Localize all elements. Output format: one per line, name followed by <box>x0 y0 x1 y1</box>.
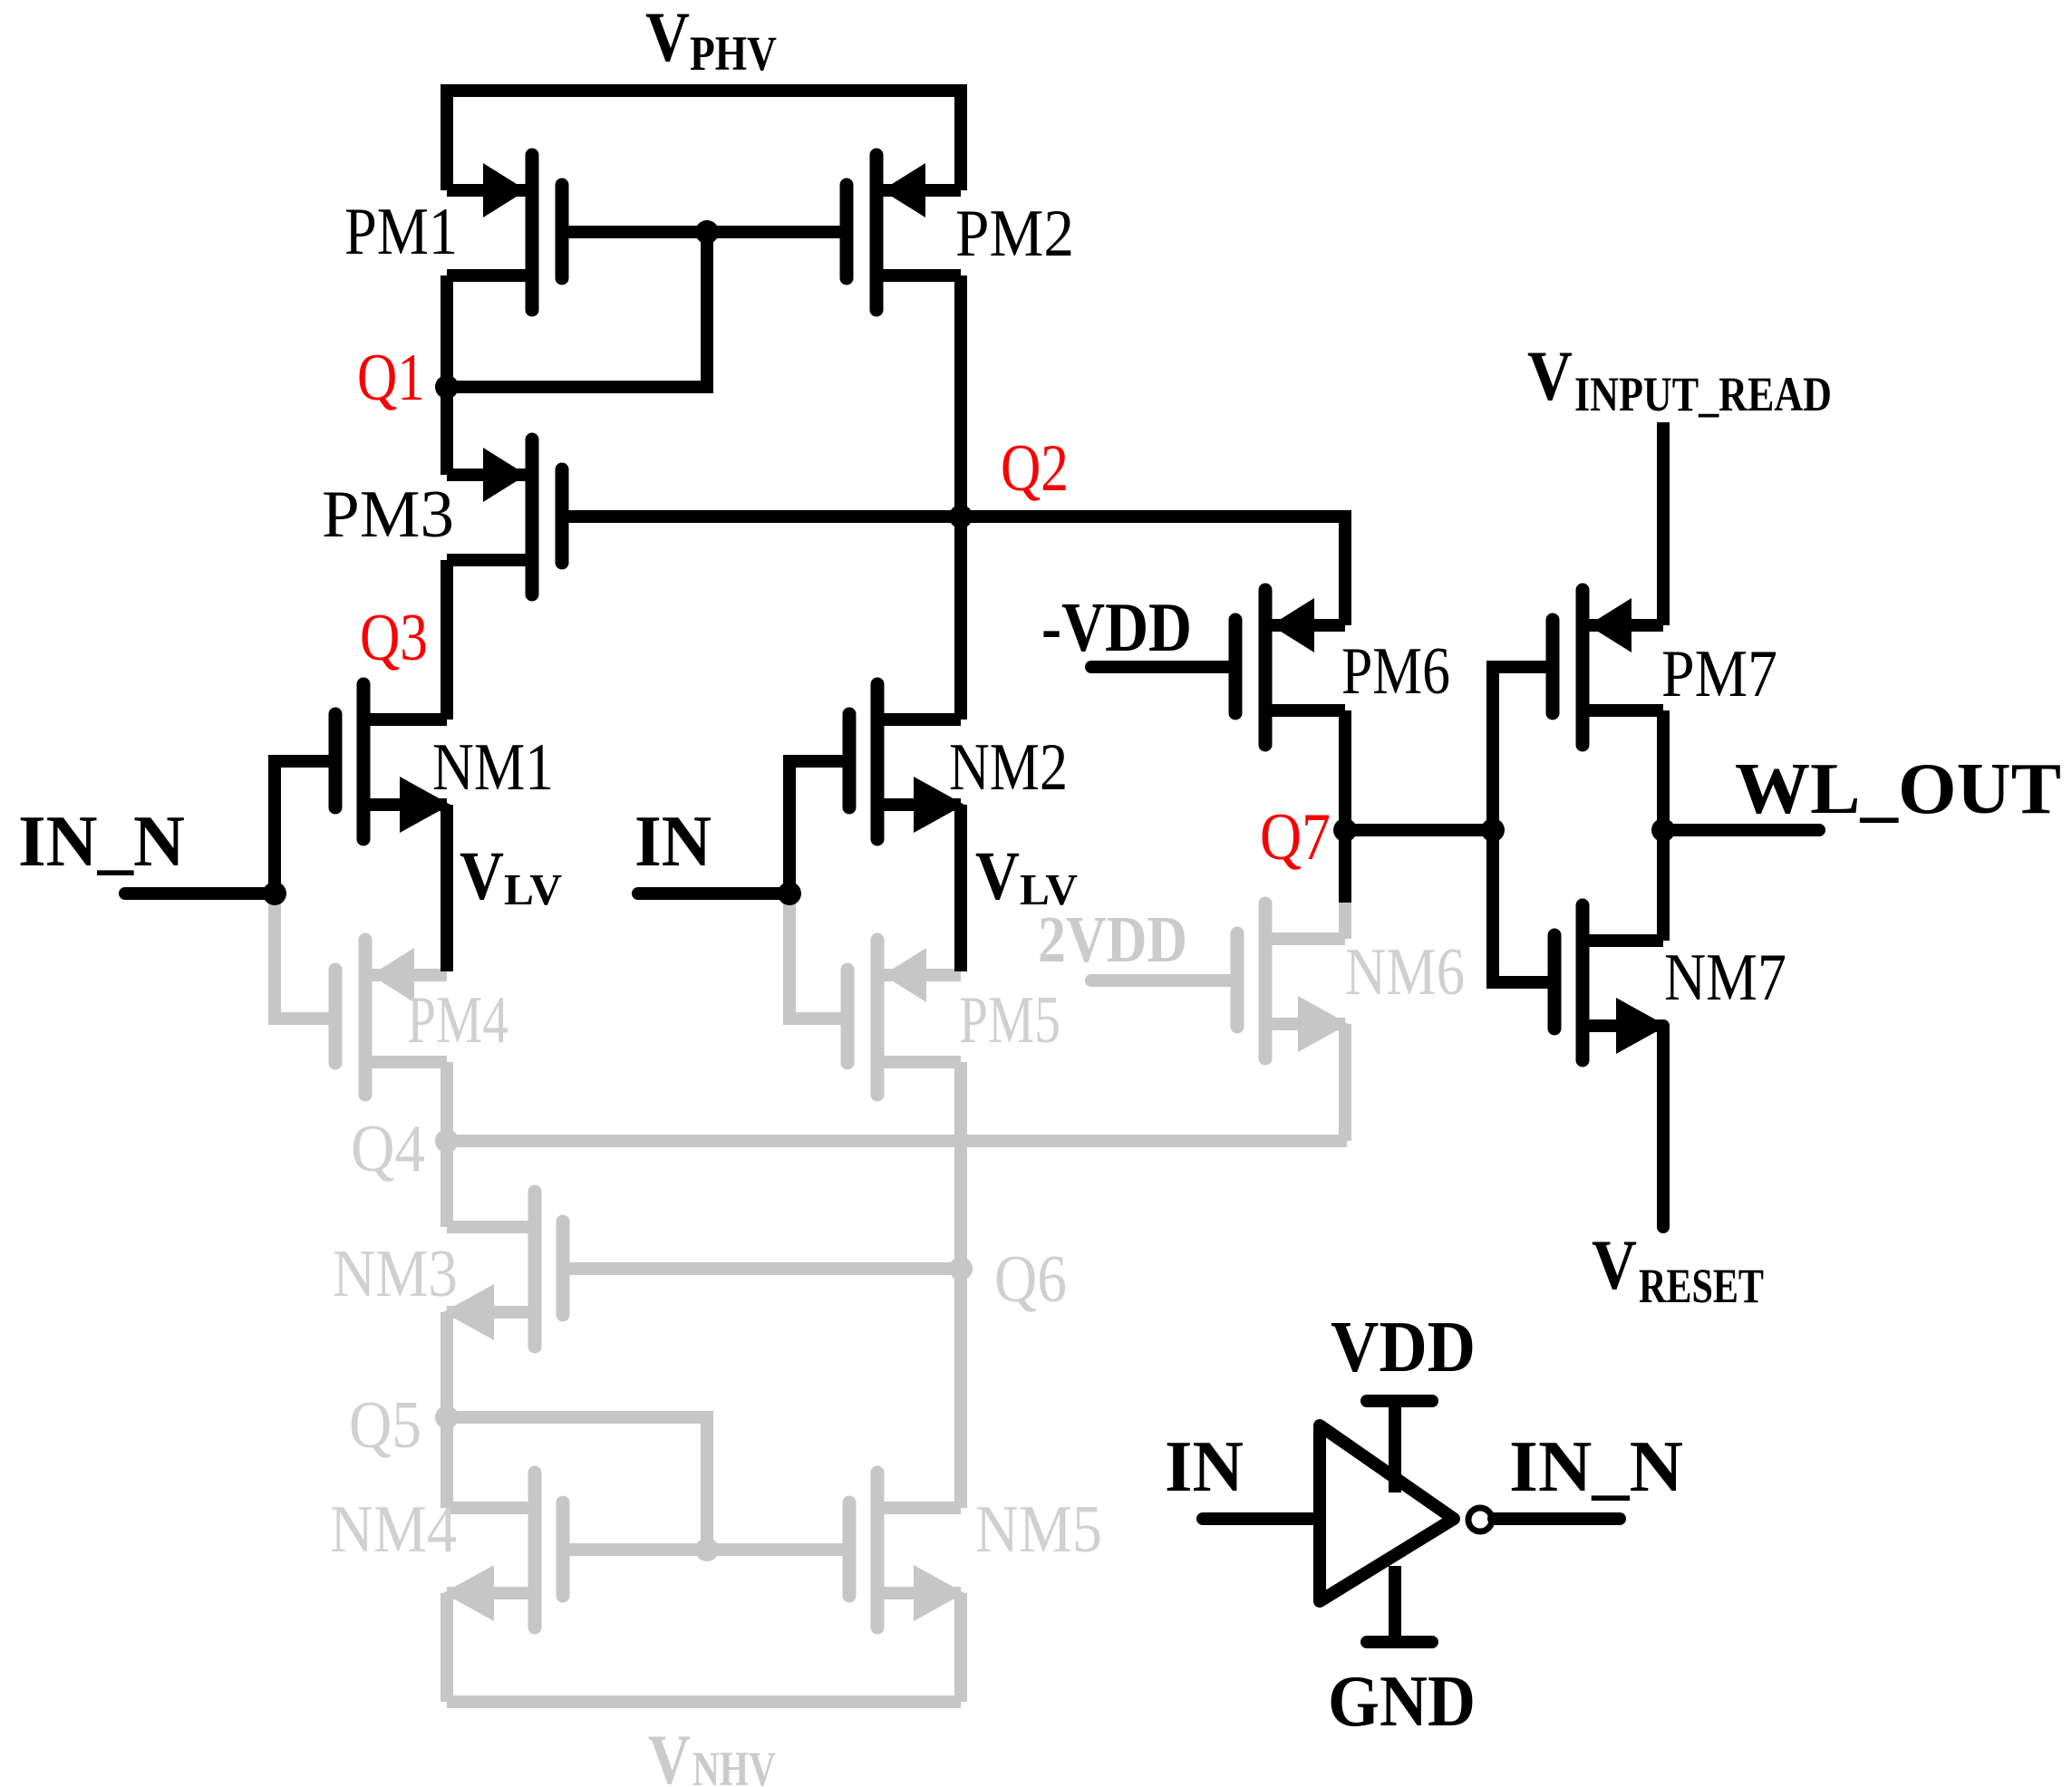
svg-text:WL_OUT: WL_OUT <box>1735 749 2061 829</box>
svg-text:V: V <box>460 838 504 914</box>
wire Q5 to NM4 drain <box>441 1417 453 1508</box>
wire PM5 drain to NM5 drain (through Q4, Q6) <box>954 1062 967 1508</box>
transistor NM6 <box>1237 903 1349 1058</box>
svg-text:Q7: Q7 <box>1260 800 1331 874</box>
svg-text:PM4: PM4 <box>407 983 508 1058</box>
transistor PM7 <box>1553 590 1663 745</box>
wire PM6 drain to Q7 <box>1339 710 1351 830</box>
wire gate junction down to Q1 <box>447 232 707 387</box>
wire WL_OUT to NM7 drain <box>1657 830 1670 941</box>
wire Q5 to NM4/NM5 gates <box>447 1417 707 1550</box>
wire NM5 source to VNHV rail <box>954 1593 967 1702</box>
transistor NM4 <box>443 1473 563 1628</box>
transistor PM6 <box>1235 590 1345 745</box>
node Q6 junction dot <box>949 1257 973 1280</box>
wire node Q6 line (NM3 gate) <box>563 1262 961 1275</box>
svg-text:PM2: PM2 <box>955 197 1074 271</box>
wire VNHV bottom rail <box>447 1695 961 1708</box>
node Q7 junction dot <box>1333 818 1357 842</box>
wire NM1 gate to IN_N node <box>275 761 335 893</box>
wire WL_OUT output <box>1663 824 1819 836</box>
transistor NM2 <box>849 684 964 839</box>
svg-text:NM4: NM4 <box>330 1492 457 1567</box>
svg-text:NM5: NM5 <box>975 1492 1102 1567</box>
node Q4 line <box>447 1135 1347 1147</box>
svg-text:LV: LV <box>504 865 562 914</box>
node Q5 junction dot <box>435 1405 459 1429</box>
wire IN node to PM5 gate <box>789 893 847 1019</box>
svg-text:PM6: PM6 <box>1341 634 1450 709</box>
wire PM2 drain down to Q2 <box>954 275 967 517</box>
wire V_INPUT_READ stem <box>1657 422 1670 625</box>
svg-text:PM1: PM1 <box>344 195 458 269</box>
junction dot at gate vertical <box>1481 818 1505 842</box>
wire Q4 to NM3 drain <box>441 1141 453 1227</box>
svg-text:NHV: NHV <box>692 1742 776 1787</box>
wire Q1 to PM3 source <box>441 387 453 475</box>
junction dot gates PM1/PM2 <box>695 220 719 244</box>
wire PM1-PM2 gate line <box>562 226 847 238</box>
svg-text:NM2: NM2 <box>949 730 1068 805</box>
wire NM4-NM5 gate line <box>563 1543 849 1556</box>
svg-text:IN: IN <box>634 802 712 882</box>
wire PM7-NM7 gate vertical <box>1493 667 1554 982</box>
transistor PM5 <box>847 940 961 1095</box>
svg-text:NM7: NM7 <box>1664 941 1786 1015</box>
transistor NM5 <box>849 1473 964 1628</box>
wire Q2 line (PM3 gate to PM6 source) <box>562 517 1345 625</box>
wire NM6 gate stub under 2VDD <box>1091 974 1237 987</box>
transistor PM1 <box>447 155 562 310</box>
transistor PM4 <box>335 940 447 1095</box>
svg-text:Q1: Q1 <box>357 341 425 415</box>
inverter U1 VDD T-bar <box>1367 1395 1432 1407</box>
svg-text:-VDD: -VDD <box>1041 588 1192 666</box>
wire NM2 gate to IN node <box>789 761 849 893</box>
transistor NM1 <box>335 684 450 839</box>
wire inverter output IN_N <box>1494 1512 1620 1525</box>
svg-text:IN_N: IN_N <box>18 802 185 882</box>
wire NM3 source to Q5 <box>441 1312 453 1417</box>
svg-text:Q5: Q5 <box>349 1388 421 1463</box>
wire NM6 drain up toward Q7 <box>1339 901 1351 939</box>
node Q2 junction dot <box>949 505 973 528</box>
svg-text:INPUT_READ: INPUT_READ <box>1574 367 1832 421</box>
inverter U1 VDD stem <box>1389 1401 1401 1492</box>
inverter U1 GND T-bar <box>1367 1636 1432 1648</box>
label V_INPUT_READ <box>1527 336 1832 421</box>
svg-text:Q6: Q6 <box>994 1242 1067 1317</box>
svg-text:PHV: PHV <box>690 26 777 81</box>
wire NM1 source to VLV <box>441 805 453 971</box>
svg-text:V: V <box>975 838 1020 914</box>
svg-text:NM6: NM6 <box>1345 935 1465 1009</box>
label V_LV left <box>460 838 562 914</box>
svg-text:V: V <box>648 1720 691 1787</box>
transistor PM3 <box>447 440 562 594</box>
junction dot NM4/NM5 gates <box>695 1538 719 1561</box>
svg-text:NM3: NM3 <box>333 1237 458 1311</box>
label V_NHV <box>648 1720 776 1787</box>
svg-text:PM7: PM7 <box>1661 637 1777 711</box>
svg-text:Q4: Q4 <box>351 1112 425 1186</box>
svg-text:Q2: Q2 <box>1001 431 1069 506</box>
inverter U1 triangle <box>1320 1425 1454 1601</box>
wire IN_N node to PM4 gate <box>275 893 335 1019</box>
node IN_N junction dot <box>263 882 286 905</box>
wire Q7 line to PM7/NM7 gates <box>1345 824 1493 836</box>
svg-text:PM5: PM5 <box>959 983 1060 1058</box>
wire Q2 down to NM2 drain <box>954 517 967 720</box>
svg-text:V: V <box>645 0 690 76</box>
wire PM3 drain to NM1 drain <box>441 560 453 720</box>
transistor PM2 <box>847 155 961 310</box>
label V_PHV <box>645 0 777 81</box>
node Q1 junction dot <box>435 375 459 399</box>
wire inverter input IN <box>1203 1512 1313 1525</box>
wire NM2 source to VLV <box>954 805 967 971</box>
wire Q7 stub down to NM6 <box>1339 830 1351 903</box>
label V_LV right <box>975 838 1078 914</box>
svg-text:VDD: VDD <box>1331 1308 1476 1387</box>
node WL_OUT junction dot <box>1651 818 1675 842</box>
svg-text:GND: GND <box>1328 1662 1476 1742</box>
wire PM7 drain to WL_OUT <box>1657 710 1670 830</box>
inverter U1 GND stem <box>1389 1566 1401 1642</box>
svg-text:IN_N: IN_N <box>1509 1427 1683 1507</box>
wire NM4 source to VNHV rail <box>441 1593 453 1702</box>
node IN junction dot <box>778 882 801 905</box>
transistor NM7 <box>1554 905 1667 1060</box>
wire IN input <box>638 887 789 900</box>
svg-text:V: V <box>1592 1225 1637 1304</box>
label V_RESET <box>1592 1225 1764 1313</box>
svg-text:LV: LV <box>1020 865 1078 914</box>
svg-text:RESET: RESET <box>1639 1259 1764 1313</box>
svg-text:IN: IN <box>1165 1427 1244 1507</box>
transistor NM3 <box>443 1192 563 1347</box>
svg-text:PM3: PM3 <box>322 478 454 552</box>
wire NM6 source down to Q4 line <box>1339 1024 1351 1141</box>
wire PM6 gate stub under -VDD <box>1091 661 1235 673</box>
svg-text:NM1: NM1 <box>432 730 554 805</box>
node Q4 junction dot <box>435 1129 459 1153</box>
wire VPHV top rail <box>447 91 961 190</box>
wire IN_N input <box>125 887 275 900</box>
wire PM4 drain to Q4 <box>441 1062 453 1141</box>
svg-text:Q3: Q3 <box>360 601 428 675</box>
wire NM7 source to V_RESET <box>1657 1026 1670 1227</box>
wire PM1 drain to Q1 <box>441 275 453 387</box>
svg-text:V: V <box>1527 336 1573 415</box>
inverter U1 output bubble <box>1468 1508 1492 1531</box>
